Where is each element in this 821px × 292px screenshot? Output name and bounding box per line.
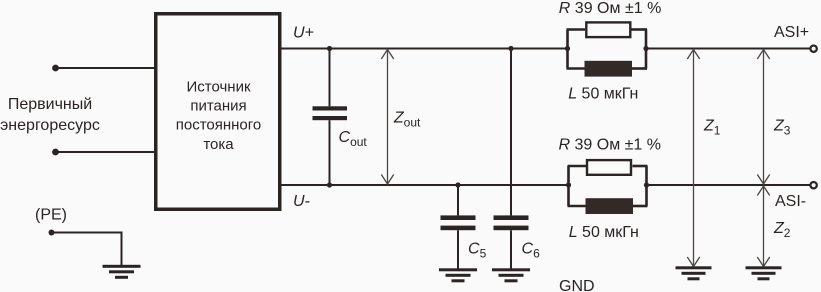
svg-text:R 39 Ом ±1 %: R 39 Ом ±1 % [559,0,662,17]
svg-text:GND: GND [559,278,595,292]
svg-text:ASI-: ASI- [775,193,806,210]
svg-text:(PE): (PE) [35,207,67,224]
svg-text:ASI+: ASI+ [774,24,809,41]
svg-text:энергоресурс: энергоресурс [0,117,100,134]
svg-text:питания: питания [190,98,246,115]
svg-text:L 50 мкГн: L 50 мкГн [568,86,638,103]
svg-text:Первичный: Первичный [8,96,92,113]
svg-text:Источник: Источник [186,78,250,95]
svg-text:тока: тока [203,136,234,153]
svg-text:R 39 Ом ±1 %: R 39 Ом ±1 % [559,137,662,154]
svg-text:U-: U- [293,193,310,210]
svg-text:U+: U+ [293,25,314,42]
svg-text:постоянного: постоянного [176,117,262,134]
svg-text:L 50 мкГн: L 50 мкГн [569,224,639,241]
